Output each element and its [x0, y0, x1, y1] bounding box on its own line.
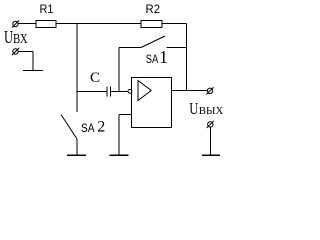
op-amp U1 body	[132, 78, 172, 128]
wire R1 to R2 (node A)	[56, 23, 141, 25]
svg-text:ВХ: ВХ	[13, 31, 28, 46]
wire capacitor to op-amp inverting input	[111, 91, 129, 93]
resistor R1	[36, 21, 56, 28]
ground bar (SA2)	[67, 154, 86, 156]
wire terminal X4 down	[210, 127, 212, 155]
op-amp triangle	[138, 81, 151, 101]
ground bar (input X2)	[23, 69, 43, 71]
switch SA1 left lead	[119, 47, 141, 49]
wire SA2 bottom lead to ground	[76, 139, 78, 155]
output terminal X4	[208, 122, 213, 127]
wire SA1 left branch vertical down to inverting input node	[118, 48, 120, 92]
input terminal X1	[13, 21, 18, 26]
svg-text:U: U	[4, 28, 13, 48]
wire input terminal X2 to ground corner	[18, 52, 33, 71]
svg-text:R2: R2	[146, 2, 161, 16]
wire feedback vertical to output node	[186, 24, 188, 91]
capacitor C plates	[107, 87, 111, 97]
wire op-amp output to terminal X3	[172, 90, 208, 92]
ground bar (noninverting input)	[110, 154, 129, 156]
svg-text:SA: SA	[146, 52, 159, 66]
svg-text:1: 1	[159, 47, 168, 67]
svg-text:2: 2	[97, 119, 105, 136]
resistor R2	[141, 21, 162, 28]
input terminal X2	[13, 49, 18, 54]
wire node A to capacitor left plate	[77, 91, 107, 93]
svg-text:R1: R1	[40, 2, 54, 16]
svg-text:C: C	[90, 70, 100, 86]
svg-text:ВЫХ: ВЫХ	[199, 106, 224, 117]
output terminal X3	[207, 88, 212, 93]
switch SA1 right lead	[167, 47, 187, 49]
svg-text:U: U	[189, 100, 198, 118]
wire input terminal X1 to R1	[18, 23, 36, 25]
ground bar (output X4)	[202, 154, 220, 156]
wire op-amp noninverting input to ground	[119, 115, 132, 156]
wire node A junction down to capacitor / SA2 branch	[76, 24, 78, 113]
switch SA1 blade	[141, 36, 165, 48]
op-amp inverting input bubble	[128, 89, 132, 93]
switch SA2 blade	[61, 115, 77, 140]
wire R2 to feedback corner	[162, 23, 187, 25]
svg-text:SA: SA	[81, 121, 95, 135]
